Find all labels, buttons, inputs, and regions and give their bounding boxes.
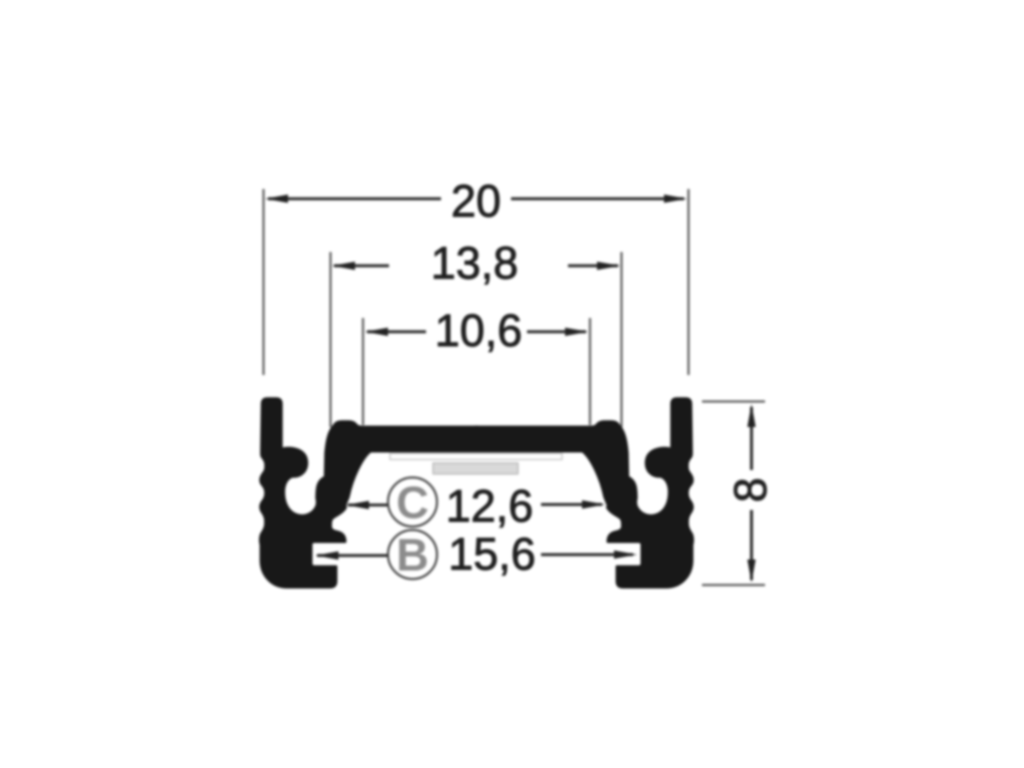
dimension line 13,8	[334, 264, 618, 267]
label circle B	[388, 530, 437, 579]
arrowhead 10,6 left	[365, 328, 388, 336]
svg-text:8: 8	[725, 477, 776, 502]
extension line bottom of dim 8	[702, 584, 765, 586]
dimension line 20	[268, 197, 684, 200]
svg-text:C: C	[396, 477, 429, 528]
LED strip seat outline	[390, 454, 562, 460]
arrowhead 13,8 right	[597, 262, 620, 270]
arrowhead 8 top	[747, 404, 755, 427]
aluminium profile cross-section, left half	[260, 399, 478, 588]
svg-text:20: 20	[451, 176, 501, 227]
svg-text:13,8: 13,8	[431, 238, 519, 289]
LED strip block	[433, 463, 518, 474]
arrowhead 20 right	[664, 195, 687, 203]
extension line left of dim 20	[262, 189, 264, 375]
arrowhead C right	[582, 500, 605, 508]
leader line B right	[541, 553, 633, 556]
label circle C	[388, 478, 437, 527]
svg-text:12,6: 12,6	[446, 481, 534, 532]
arrowhead 10,6 right	[565, 328, 588, 336]
dimension line 8	[750, 407, 753, 580]
arrowhead C left	[346, 501, 369, 509]
arrowhead 13,8 left	[332, 262, 355, 270]
dimension line 10,6	[367, 330, 586, 333]
arrowhead B right	[614, 550, 637, 558]
extension line right of dim 13,8	[620, 252, 622, 427]
arrowhead 8 bottom	[747, 560, 755, 583]
leader line B left	[317, 554, 388, 557]
extension line right of dim 10,6	[589, 318, 591, 425]
arrowhead B left	[316, 551, 339, 559]
extension line left of dim 13,8	[329, 252, 331, 427]
aluminium profile cross-section, right half (mirror)	[475, 399, 693, 588]
svg-text:10,6: 10,6	[435, 305, 523, 356]
extension line top of dim 8	[702, 400, 765, 402]
svg-text:B: B	[396, 530, 429, 581]
svg-text:15,6: 15,6	[448, 529, 536, 580]
extension line right of dim 20	[687, 189, 689, 375]
leader line C right	[541, 503, 602, 506]
leader line C left	[348, 504, 388, 507]
extension line left of dim 10,6	[362, 318, 364, 425]
arrowhead 20 left	[265, 195, 288, 203]
